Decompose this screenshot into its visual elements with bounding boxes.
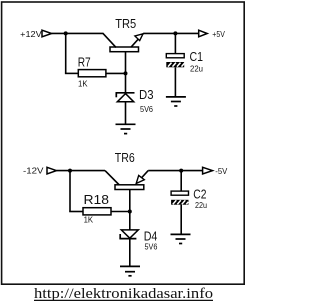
wire C1 to ground xyxy=(174,67,176,97)
svg-text:TR5: TR5 xyxy=(115,16,136,31)
transistor TR6 xyxy=(105,171,148,190)
input terminal +12V xyxy=(42,30,52,37)
wire top rail left xyxy=(52,32,104,34)
wire base lead TR5 down to D3 xyxy=(125,52,127,94)
svg-text:R7: R7 xyxy=(78,54,91,69)
junction node base TR5 xyxy=(124,71,128,75)
wire C2 to ground xyxy=(180,205,182,235)
output terminal -5V xyxy=(203,167,213,174)
wire R18 to base node xyxy=(111,211,130,213)
junction node at +12V rail xyxy=(64,31,68,35)
svg-text:-5V: -5V xyxy=(215,166,227,176)
ground under C1 xyxy=(166,97,186,106)
svg-text:-12V: -12V xyxy=(23,165,44,175)
svg-text:+5V: +5V xyxy=(212,29,225,39)
svg-text:22u: 22u xyxy=(195,201,207,210)
transistor TR5 xyxy=(103,33,143,51)
wire bottom rail left xyxy=(56,170,105,172)
junction node at +5V rail xyxy=(173,31,177,35)
wire R7 to base node xyxy=(106,72,126,74)
svg-text:22u: 22u xyxy=(190,64,203,73)
wire D4 to ground xyxy=(129,239,131,267)
wire down from junction xyxy=(65,33,67,73)
wire base lead TR6 down to D4 xyxy=(129,189,131,230)
svg-text:TR6: TR6 xyxy=(115,150,135,165)
zener diode D4 xyxy=(119,230,138,239)
junction node at -12V rail xyxy=(68,169,72,173)
svg-text:R18: R18 xyxy=(84,192,110,207)
wire top rail right xyxy=(143,32,199,34)
wire junction to C1 xyxy=(174,33,176,53)
capacitor C2 xyxy=(171,191,188,205)
ground under D3 xyxy=(116,124,136,133)
junction node base TR6 xyxy=(128,210,132,214)
wire to R18 xyxy=(69,211,83,213)
svg-text:5V6: 5V6 xyxy=(145,242,158,251)
url text http://elektronikadasar.info xyxy=(34,286,213,302)
ground under C2 xyxy=(171,234,191,243)
svg-text:D3: D3 xyxy=(139,87,154,102)
wire to R7 xyxy=(65,72,78,74)
svg-text:+12V: +12V xyxy=(20,29,42,39)
svg-text:5V6: 5V6 xyxy=(140,105,154,114)
wire D3 to ground xyxy=(125,102,127,125)
ground under D4 xyxy=(120,266,140,275)
wire junction to C2 xyxy=(180,171,182,192)
zener diode D3 xyxy=(116,93,135,102)
svg-text:http://elektronikadasar.info: http://elektronikadasar.info xyxy=(34,286,213,302)
svg-text:1K: 1K xyxy=(78,80,88,89)
svg-text:C1: C1 xyxy=(190,50,204,64)
input terminal -12V xyxy=(47,167,56,174)
wire bottom rail right xyxy=(148,170,202,172)
resistor R18 xyxy=(83,208,111,215)
svg-text:1K: 1K xyxy=(84,215,94,224)
output terminal +5V xyxy=(199,30,208,37)
svg-text:C2: C2 xyxy=(193,187,206,201)
svg-text:D4: D4 xyxy=(144,228,158,243)
junction node at -5V rail xyxy=(179,169,183,173)
resistor R7 xyxy=(78,70,106,77)
capacitor C1 xyxy=(166,54,185,68)
wire down from junction xyxy=(69,171,71,212)
